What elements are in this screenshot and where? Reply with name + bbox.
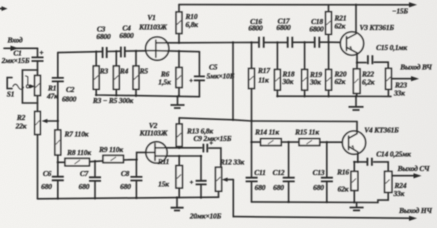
ground stage1	[171, 96, 185, 108]
resistor R11	[176, 156, 182, 198]
wire C2 to R7	[57, 81, 59, 130]
wire R1 bottom to R2	[37, 103, 39, 112]
stage2 bottom bus	[38, 197, 219, 199]
capacitor C6	[52, 162, 64, 198]
ground mid	[350, 202, 364, 210]
transistor V4 KT361B	[342, 122, 365, 162]
wire C1 to loop	[37, 61, 39, 70]
resistor R17	[249, 43, 255, 89]
V1 drain line to filter chain	[156, 41, 347, 44]
continuation arrow top-left	[0, 6, 8, 11]
capacitor C17	[288, 37, 293, 48]
output VCh arrow	[391, 76, 419, 81]
capacitor C9	[203, 141, 221, 167]
capacitor C10 electrolytic 20mk	[190, 156, 207, 197]
resistor R21	[326, 5, 332, 43]
resistor R3	[93, 52, 99, 90]
resistor R5	[133, 51, 139, 89]
resistor R4	[113, 51, 119, 89]
wire R12 wiper to LF rail	[232, 180, 234, 217]
resistor R23	[386, 68, 392, 95]
capacitor C1	[32, 51, 44, 61]
capacitor C13	[321, 142, 333, 202]
mid bottom bus	[252, 201, 379, 204]
resistor R12	[216, 167, 222, 197]
resistor R8	[65, 158, 89, 165]
capacitor C18	[315, 37, 320, 48]
wiper arrow of R1	[30, 84, 36, 88]
power rail -15V	[179, 2, 417, 7]
node main vertical x58	[57, 53, 59, 77]
resistor R13	[176, 118, 182, 148]
transistor V3 KT361B	[340, 5, 363, 63]
wire R7 to R8 node	[57, 155, 59, 162]
resistor R22	[353, 63, 360, 96]
ground stage2	[171, 198, 184, 211]
input wire with arrow	[4, 46, 38, 51]
capacitor C5	[189, 52, 205, 97]
capacitor C14	[367, 158, 388, 172]
transistor V1 KP103Zh	[146, 37, 169, 60]
signal line to V1 gate	[58, 51, 156, 53]
paper texture	[0, 0, 1, 1]
capacitor C3	[103, 47, 107, 58]
LF output rail	[233, 216, 417, 221]
resistor R6	[176, 51, 182, 96]
jack S1	[7, 76, 29, 90]
capacitor C12	[283, 142, 295, 202]
wiper arrow of R12	[222, 178, 234, 182]
resistor R7	[55, 130, 61, 155]
wire R2 to bottom bus	[37, 135, 39, 199]
capacitor C2	[52, 78, 64, 82]
resistor R20	[326, 42, 332, 96]
mid chain node vertical	[251, 89, 253, 178]
resistor R16	[351, 162, 358, 202]
resistor R2	[35, 112, 41, 135]
V4 emitter node	[354, 161, 366, 163]
resistor R10	[176, 5, 182, 43]
resistor R15	[299, 139, 349, 146]
capacitor C15	[357, 55, 388, 68]
transistor V2 KP103Zh	[146, 142, 167, 163]
capacitor C8	[130, 160, 142, 198]
stage2 upper line (V4 collector line)	[179, 118, 357, 122]
wiper arrow of R2	[42, 119, 58, 123]
wire input to C1	[37, 48, 39, 56]
resistor R19	[302, 42, 308, 96]
resistor R14	[252, 139, 300, 146]
capacitor C16	[259, 37, 264, 48]
resistor R18	[275, 42, 281, 96]
V2 drain line	[155, 147, 202, 149]
wire loop around R1	[22, 70, 37, 103]
stage1 ground bus	[96, 89, 199, 96]
capacitor C7	[89, 161, 101, 198]
feed wire to stage2 line	[232, 43, 234, 120]
chain R8 R9 to V2 gate	[58, 152, 146, 162]
ground right	[349, 96, 364, 110]
output SCh arrow	[392, 173, 422, 178]
capacitor C11	[246, 178, 258, 202]
resistor R1	[35, 76, 41, 96]
right ground bus	[277, 95, 391, 97]
resistor R9	[103, 155, 123, 162]
capacitor C4	[121, 47, 125, 58]
resistor R24	[378, 171, 392, 202]
V1 source line	[156, 51, 200, 52]
V2 source line	[155, 155, 201, 157]
